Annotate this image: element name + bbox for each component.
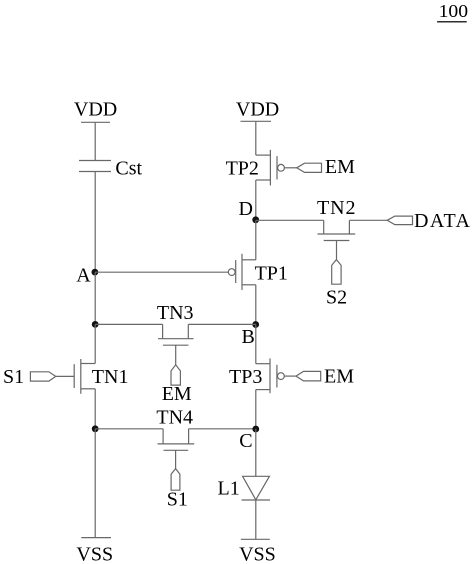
svg-text:EM: EM [324,365,354,387]
svg-text:TP2: TP2 [226,157,259,179]
transistor TP1 [236,254,288,290]
signal EM (middle) [162,365,192,405]
wire [255,180,257,220]
figure label 100 [437,1,468,22]
wire [255,285,257,325]
svg-text:VSS: VSS [239,543,276,564]
transistor TN3 [157,302,194,345]
wire [189,428,256,430]
signal DATA [387,210,470,232]
signal S1 (left) [3,366,74,388]
svg-text:C: C [239,430,252,452]
wire (node A to TP1 gate) [95,271,228,273]
diode L1 [218,476,271,500]
wire [349,219,387,221]
svg-text:VDD: VDD [236,99,279,121]
svg-text:S1: S1 [3,366,24,388]
wire [94,389,96,429]
svg-text:TP3: TP3 [229,366,262,388]
transistor TN2 [317,197,356,241]
node B [242,321,260,348]
wire (TN4 gate) [175,450,177,468]
wire [188,323,256,325]
wire (TN3 gate) [175,345,177,365]
VSS terminal (right) [239,539,276,564]
wire [255,390,257,429]
svg-text:D: D [239,198,253,220]
transistor TP3 [229,358,277,393]
signal S1 (bottom) [167,469,188,511]
node A [76,264,98,286]
VDD terminal (left) [74,99,117,123]
svg-text:EM: EM [325,156,355,178]
svg-text:Cst: Cst [115,158,142,180]
signal EM (right) [296,365,354,387]
VDD terminal (right) [236,99,279,122]
svg-text:VSS: VSS [76,543,113,564]
svg-text:TP1: TP1 [255,262,288,284]
svg-text:L1: L1 [218,477,240,499]
svg-text:TN4: TN4 [156,407,193,429]
wire [255,324,257,363]
VSS terminal (left) [76,538,113,564]
wire [94,324,96,363]
wire [95,428,163,430]
wire [255,429,257,477]
wire [255,121,257,155]
transistor TN1 [74,359,128,394]
svg-text:TN2: TN2 [317,197,356,219]
svg-text:TN1: TN1 [92,366,129,388]
svg-text:A: A [76,264,91,286]
gate bubble TP3 [278,373,285,380]
svg-text:S2: S2 [326,286,347,308]
wire [336,241,338,260]
signal S2 [326,260,347,309]
wire [95,323,162,325]
svg-text:VDD: VDD [74,99,117,121]
node D [239,198,260,223]
node (TN1 to TN4 junction) [92,425,99,432]
transistor TP2 [226,150,277,186]
transistor TN4 [156,407,194,451]
wire [255,220,257,259]
capacitor Cst [79,158,143,180]
svg-text:100: 100 [439,1,469,21]
gate bubble TP2 [278,164,285,171]
gate bubble TP1 [228,269,235,276]
wire [284,375,296,377]
wire [284,167,296,169]
node C [239,426,259,452]
wire [256,219,324,221]
svg-text:EM: EM [162,383,192,405]
wire [94,122,96,160]
wire [94,272,96,324]
svg-text:TN3: TN3 [157,302,194,324]
signal EM (top) [297,156,355,178]
node (A to TN1/TN3 junction) [92,321,99,328]
wire [94,429,96,538]
svg-text:S1: S1 [167,488,188,510]
wire [94,172,96,273]
wire [255,500,257,539]
svg-text:B: B [242,326,255,348]
